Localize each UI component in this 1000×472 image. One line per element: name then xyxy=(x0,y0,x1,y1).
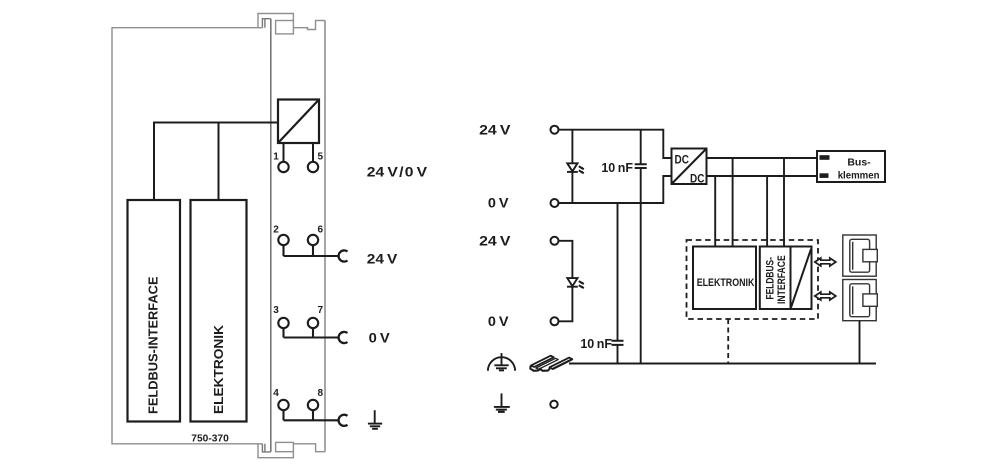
LED D1 xyxy=(567,163,584,173)
Bus-klemmen box xyxy=(817,151,885,182)
svg-text:2: 2 xyxy=(273,224,279,235)
terminal circle 24V xyxy=(551,126,559,134)
Bus-klemmen pin top xyxy=(820,155,830,160)
svg-text:5: 5 xyxy=(318,152,324,163)
wire row 4/8 xyxy=(284,410,340,420)
terminal circle 24V field xyxy=(551,237,559,245)
svg-text:DC: DC xyxy=(690,173,704,185)
DC/DC converter U1 xyxy=(672,149,707,185)
bottom latch box xyxy=(276,442,294,451)
terminal circle 2 xyxy=(278,235,288,245)
noiseless earth symbol xyxy=(488,353,515,371)
wire boxes to DC/DC xyxy=(154,123,278,201)
svg-text:FELDBUS-INTERFACE: FELDBUS-INTERFACE xyxy=(146,276,161,414)
svg-text:6: 6 xyxy=(318,224,324,235)
wire drop to FELDBUS b xyxy=(783,158,785,247)
capacitor C2 plates xyxy=(612,341,624,345)
svg-text:0 V: 0 V xyxy=(369,331,390,346)
dashed module boundary box xyxy=(687,240,819,319)
terminal circle 8 xyxy=(308,400,318,410)
bottom clip slot xyxy=(262,444,270,452)
wire DC/DC to Bus-klemmen (bottom) xyxy=(707,175,818,177)
svg-text:0 V: 0 V xyxy=(488,314,509,329)
RJ45 jack bottom xyxy=(843,280,878,321)
svg-text:10 nF: 10 nF xyxy=(580,337,612,351)
svg-text:ELEKTRONIK: ELEKTRONIK xyxy=(697,277,755,289)
svg-text:0 V: 0 V xyxy=(488,196,509,211)
box ELEKTRONIK xyxy=(191,200,247,422)
box FELDBUS-INTERFACE (right) xyxy=(760,247,812,310)
module body outline xyxy=(112,28,262,444)
DIN-clip top bar xyxy=(258,14,293,28)
top latch box xyxy=(276,21,294,34)
clamp contact row 4/8 xyxy=(339,415,348,426)
clamp contact row 3/7 xyxy=(339,332,348,343)
terminal circle 4 xyxy=(278,400,288,410)
svg-text:24 V / 0 V: 24 V / 0 V xyxy=(367,165,427,180)
svg-text:Bus-: Bus- xyxy=(847,156,871,168)
svg-text:klemmen: klemmen xyxy=(838,170,880,182)
earth rail bus xyxy=(569,363,876,365)
svg-text:8: 8 xyxy=(318,388,324,399)
svg-text:FELDBUS-: FELDBUS- xyxy=(765,257,777,300)
RJ45 jack top xyxy=(843,235,878,276)
LED D2 xyxy=(567,278,584,288)
terminal circle 7 xyxy=(308,318,318,328)
svg-text:INTERFACE: INTERFACE xyxy=(776,255,788,304)
svg-text:750-370: 750-370 xyxy=(191,432,229,444)
svg-text:7: 7 xyxy=(318,305,324,316)
svg-text:10 nF: 10 nF xyxy=(601,161,633,175)
capacitor C1 10nF wire xyxy=(640,130,642,364)
divider FELDBUS box xyxy=(790,247,792,310)
DC/DC diagonal xyxy=(278,100,319,144)
Bus-klemmen pin bottom xyxy=(820,173,829,178)
top-right step profile xyxy=(293,21,325,30)
ground symbol (row 4/8) xyxy=(368,410,382,429)
box ELEKTRONIK (right) xyxy=(693,247,756,310)
LED D1 wire xyxy=(571,130,573,203)
svg-text:ELEKTRONIK: ELEKTRONIK xyxy=(211,324,226,414)
svg-text:24 V: 24 V xyxy=(367,252,398,267)
open terminal circle xyxy=(550,401,557,408)
wire row 3/7 xyxy=(284,328,340,337)
wire row 2/6 xyxy=(284,245,340,256)
terminal circle 0V xyxy=(551,199,559,207)
DIN rail symbol xyxy=(530,356,572,371)
terminal circle 0V field xyxy=(551,317,559,325)
wire drop to ELEKTRONIK b xyxy=(732,158,734,247)
svg-text:3: 3 xyxy=(273,305,279,316)
diagonal FELDBUS box xyxy=(791,249,811,308)
top clip slot xyxy=(262,19,270,28)
terminal circle 6 xyxy=(308,235,318,245)
svg-text:24 V: 24 V xyxy=(479,234,510,249)
svg-text:24 V: 24 V xyxy=(479,123,510,138)
arrow double-headed bottom xyxy=(815,292,836,300)
svg-text:1: 1 xyxy=(273,152,279,163)
terminal strip right edge xyxy=(324,21,326,452)
terminal circle 3 xyxy=(278,318,288,328)
LED D2 wire xyxy=(559,241,573,321)
box FELDBUS-INTERFACE xyxy=(128,200,181,422)
terminal circle 1 xyxy=(278,162,288,172)
svg-text:DC: DC xyxy=(675,154,689,166)
svg-text:4: 4 xyxy=(273,388,279,399)
capacitor C1 plates xyxy=(635,164,647,168)
terminal strip left edge xyxy=(270,19,272,452)
earth ground symbol xyxy=(494,393,510,411)
wire 0V to DC/DC xyxy=(559,176,672,203)
wire RJ45 to rail xyxy=(859,321,861,364)
capacitor C2 10nF wire xyxy=(617,203,619,364)
arrow double-headed top xyxy=(815,258,836,266)
wire 24V to DC/DC xyxy=(559,130,672,158)
wire DC/DC to Bus-klemmen (top) xyxy=(707,157,818,159)
DIN-clip bottom bar xyxy=(258,444,293,458)
wire drop to ELEKTRONIK a xyxy=(714,176,716,247)
terminal circle 5 xyxy=(308,162,318,172)
wire stems terminals 1,5 xyxy=(284,143,314,162)
DC/DC converter square xyxy=(278,100,319,144)
bottom-right step profile xyxy=(293,444,325,452)
wire drop to FELDBUS a xyxy=(766,176,768,247)
clamp contact row 2/6 xyxy=(339,250,348,261)
dashed wire box to rail xyxy=(727,319,729,364)
